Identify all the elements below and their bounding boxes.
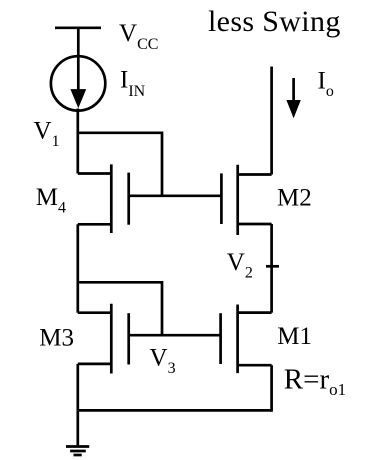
current source I_IN [51, 56, 105, 110]
transistor M3 [78, 304, 129, 374]
wire [77, 28, 80, 57]
wire [161, 132, 164, 196]
transistor M1 [221, 305, 272, 374]
svg-text:V2: V2 [227, 249, 253, 282]
wire [76, 364, 79, 411]
svg-text:M2: M2 [277, 185, 312, 212]
svg-text:IIN: IIN [120, 67, 146, 100]
wire [76, 109, 79, 174]
wire [161, 281, 164, 335]
ground [66, 410, 89, 455]
svg-text:V3: V3 [150, 344, 176, 377]
svg-text:M1: M1 [277, 323, 312, 350]
wire gate line M4-M2 [129, 194, 222, 197]
wire output [270, 67, 273, 175]
svg-text:M3: M3 [39, 324, 74, 351]
wire [270, 365, 273, 412]
transistor M2 [221, 165, 271, 235]
wire [270, 224, 273, 313]
svg-text:Io: Io [318, 68, 334, 101]
svg-text:R=ro1: R=ro1 [284, 364, 346, 400]
wire [76, 224, 79, 312]
wire ground rail [77, 409, 272, 412]
transistor M4 [78, 164, 129, 233]
svg-text:M4: M4 [36, 184, 66, 217]
wire diode branch [77, 281, 163, 284]
node V1 wire [77, 131, 163, 134]
svg-text:less Swing: less Swing [208, 5, 341, 38]
svg-text:VCC: VCC [119, 20, 158, 53]
svg-text:V1: V1 [34, 117, 60, 150]
wire gate line M3-M1 [129, 334, 221, 337]
arrow Io [286, 78, 300, 118]
power VCC bar [55, 26, 101, 29]
node V2 tick [266, 265, 279, 268]
